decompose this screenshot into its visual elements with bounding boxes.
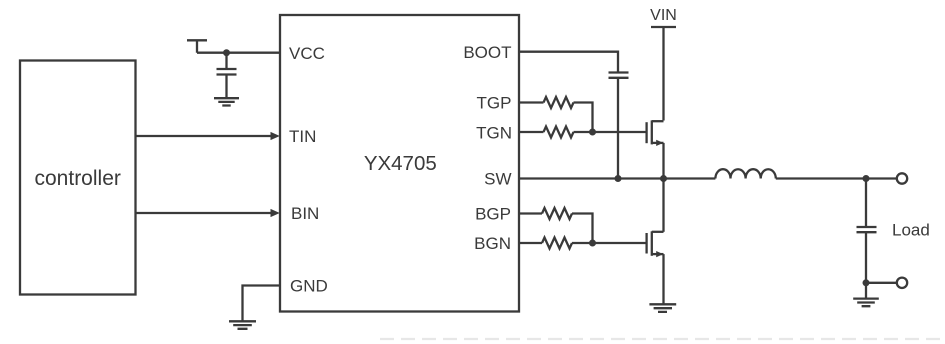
resistor R3 xyxy=(542,208,572,219)
wire output minus xyxy=(866,282,897,284)
arrowhead BIN xyxy=(271,209,280,217)
svg-text:TGP: TGP xyxy=(477,94,512,113)
svg-text:BGP: BGP xyxy=(475,205,511,224)
node TGN junction xyxy=(589,129,596,136)
VCC input terminal xyxy=(187,40,207,52)
wire BOOT xyxy=(519,52,618,73)
wire Q2 source xyxy=(662,254,664,304)
svg-text:BOOT: BOOT xyxy=(463,43,511,62)
capacitor C3 output xyxy=(857,179,877,283)
node output junction xyxy=(863,175,870,182)
capacitor C1 xyxy=(217,53,237,98)
node VCC junction xyxy=(223,49,230,56)
wire GND xyxy=(243,286,281,322)
wire L1 to output xyxy=(776,177,897,179)
VIN supply bar xyxy=(651,26,676,28)
wire R3 to BGN node xyxy=(572,214,593,244)
ground G3 xyxy=(649,304,676,312)
ground G2 xyxy=(229,321,256,329)
node SW Q1 junction xyxy=(660,175,667,182)
terminal output plus xyxy=(897,173,907,183)
resistor R1 xyxy=(544,97,574,108)
node SW boot junction xyxy=(615,175,622,182)
svg-text:Load: Load xyxy=(892,220,930,239)
wire TGN to Q1 gate xyxy=(574,131,646,133)
node BGN junction xyxy=(589,240,596,247)
wire SW xyxy=(519,177,715,179)
resistor R2 xyxy=(544,127,574,138)
IC U1 box xyxy=(280,15,519,312)
wire TIN xyxy=(136,135,272,137)
capacitor C2 bootstrap xyxy=(609,73,629,179)
svg-text:TGN: TGN xyxy=(476,123,512,142)
wire R1 to TGN node xyxy=(574,103,593,133)
wire BIN xyxy=(136,212,272,214)
wire BGP xyxy=(519,212,542,214)
wire BGN xyxy=(519,242,542,244)
transistor Q1 xyxy=(647,120,664,146)
ground G4 xyxy=(853,299,879,307)
wire Q2 drain to SW xyxy=(662,179,664,232)
svg-text:YX4705: YX4705 xyxy=(364,152,437,175)
svg-text:BIN: BIN xyxy=(291,204,319,223)
svg-text:TIN: TIN xyxy=(289,127,316,146)
controller box xyxy=(20,61,136,295)
wire TGN xyxy=(519,131,544,133)
wire VCC xyxy=(197,52,280,54)
terminal output minus xyxy=(897,278,907,288)
wire VIN to Q1 drain xyxy=(662,27,664,121)
wire to ground G4 xyxy=(865,283,867,299)
transistor Q2 xyxy=(647,231,664,257)
svg-text:BGN: BGN xyxy=(474,234,511,253)
resistor R4 xyxy=(542,238,572,249)
svg-text:SW: SW xyxy=(484,170,511,189)
arrowhead TIN xyxy=(271,132,280,140)
wire TGP xyxy=(519,101,544,103)
node output minus junction xyxy=(863,279,870,286)
svg-text:VIN: VIN xyxy=(650,7,677,24)
wire BGN to Q2 gate xyxy=(572,242,646,244)
svg-text:GND: GND xyxy=(290,277,328,296)
inductor L1 xyxy=(715,169,775,178)
svg-text:VCC: VCC xyxy=(289,44,325,63)
svg-text:controller: controller xyxy=(35,167,121,190)
wire Q1 source to SW xyxy=(662,143,664,179)
ground G1 xyxy=(214,98,239,105)
